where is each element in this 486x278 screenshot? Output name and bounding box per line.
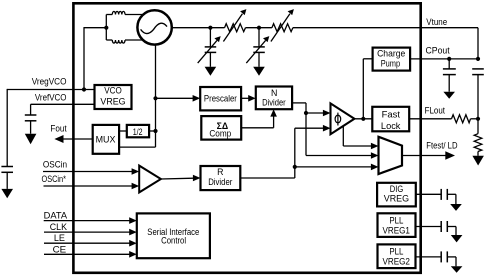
svg-text:LE: LE [54, 233, 65, 243]
svg-text:VREG1: VREG1 [382, 225, 410, 235]
svg-text:CE: CE [53, 245, 67, 255]
svg-text:VCO: VCO [104, 86, 122, 96]
svg-text:MUX: MUX [96, 134, 116, 144]
svg-text:Vtune: Vtune [426, 17, 447, 27]
svg-text:Control: Control [161, 235, 186, 245]
svg-text:VREG: VREG [384, 194, 409, 204]
svg-text:DATA: DATA [44, 211, 68, 221]
svg-text:Ftest/ LD: Ftest/ LD [426, 141, 457, 151]
svg-text:Divider: Divider [262, 98, 286, 108]
svg-text:Fout: Fout [50, 124, 67, 134]
svg-text:VREG2: VREG2 [382, 257, 410, 267]
svg-text:Lock: Lock [381, 121, 401, 131]
svg-text:Pump: Pump [381, 59, 400, 69]
svg-text:Fast: Fast [382, 110, 401, 120]
svg-text:CPout: CPout [426, 46, 451, 56]
svg-text:VREG: VREG [100, 97, 125, 107]
svg-text:N: N [271, 88, 277, 98]
svg-text:Divider: Divider [208, 177, 232, 187]
svg-text:CLK: CLK [50, 222, 67, 232]
svg-text:PLL: PLL [389, 215, 403, 225]
svg-text:DIG: DIG [390, 184, 404, 194]
svg-text:OSCin*: OSCin* [42, 174, 67, 184]
svg-text:OSCin: OSCin [43, 160, 67, 170]
svg-text:Charge: Charge [377, 49, 405, 59]
svg-text:1/2: 1/2 [133, 127, 143, 137]
svg-text:VregVCO: VregVCO [32, 77, 67, 87]
svg-text:VrefVCO: VrefVCO [35, 92, 67, 102]
svg-text:Comp: Comp [209, 128, 231, 138]
svg-text:Prescaler: Prescaler [204, 93, 237, 103]
svg-text:PLL: PLL [389, 247, 403, 257]
svg-text:FLout: FLout [425, 105, 446, 115]
svg-text:R: R [217, 167, 223, 177]
